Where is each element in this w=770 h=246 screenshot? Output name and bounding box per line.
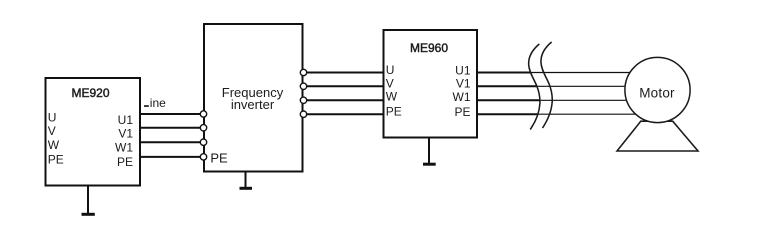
wire V1 (ME920 to inverter) <box>140 127 204 129</box>
motor mount base <box>617 121 698 151</box>
ME960 pin PE (right) <box>454 105 470 119</box>
terminal circle U (inverter output) <box>300 69 306 75</box>
svg-text:U: U <box>386 63 395 77</box>
cable break squiggle (left) <box>529 44 540 130</box>
wire PE (inverter to ME960) <box>304 113 384 115</box>
ME920 pin W1 <box>115 141 133 155</box>
svg-text:U1: U1 <box>455 63 471 77</box>
ME960 pin U1 <box>455 63 471 77</box>
ME920 pin U <box>48 111 57 125</box>
wire W1 (ME920 to inverter) <box>140 141 204 143</box>
svg-text:W1: W1 <box>115 141 133 155</box>
ME920 pin V <box>48 124 56 138</box>
svg-text:V1: V1 <box>456 77 471 91</box>
wire V1 (cable break to motor) <box>537 85 641 87</box>
svg-text:V: V <box>48 124 56 138</box>
wire W (inverter to ME960) <box>304 99 384 101</box>
ME960 pin V <box>386 76 394 90</box>
ground (ME960) <box>423 138 436 164</box>
svg-text:U: U <box>48 111 57 125</box>
ME920 pin W <box>48 138 60 152</box>
terminal circle V (inverter output) <box>300 83 306 89</box>
terminal circle V1 (inverter input) <box>200 125 206 131</box>
wire PE (ME920 to inverter) <box>140 156 204 158</box>
svg-text:ME920: ME920 <box>71 86 109 100</box>
svg-text:V: V <box>386 76 394 90</box>
inverter pin PE label <box>210 150 228 165</box>
svg-text:inverter: inverter <box>231 97 275 112</box>
terminal circle PE (inverter input) <box>200 154 206 160</box>
svg-text:W1: W1 <box>453 90 471 104</box>
svg-text:ME960: ME960 <box>410 41 448 55</box>
ME920 pin V1 <box>118 127 133 141</box>
frequency inverter U2 <box>204 24 303 172</box>
svg-text:PE: PE <box>386 105 402 119</box>
wire V1 (ME960 to cable break) <box>477 85 537 87</box>
ground (ME920) <box>82 186 95 214</box>
ME920 pin PE (right) <box>117 155 133 169</box>
wire PE (ME960 to cable break) <box>477 113 537 115</box>
ME960 pin W1 <box>453 90 471 104</box>
wire V (inverter to ME960) <box>304 85 384 87</box>
svg-text:PE: PE <box>210 150 228 165</box>
svg-text:V1: V1 <box>118 127 133 141</box>
motor M1 <box>625 57 690 122</box>
wire U1 (ME920 to inverter) <box>140 113 204 115</box>
svg-text:W: W <box>48 138 60 152</box>
input filter ME920 <box>46 78 141 186</box>
ground (inverter) <box>240 172 253 188</box>
cable break squiggle (right) <box>541 42 552 128</box>
wire U1 (ME960 to cable break) <box>477 72 530 74</box>
wire W1 (ME960 to cable break) <box>477 99 540 101</box>
terminal circle U1 (inverter input) <box>200 111 206 117</box>
ME960 pin V1 <box>456 77 471 91</box>
svg-text:Motor: Motor <box>639 86 675 101</box>
ME960 pin PE <box>386 105 402 119</box>
terminal circle W1 (inverter input) <box>200 139 206 145</box>
svg-text:PE: PE <box>454 105 470 119</box>
wire W1 (cable break to motor) <box>540 99 641 101</box>
wire PE (cable break to motor) <box>537 113 640 115</box>
svg-text:U1: U1 <box>118 113 134 127</box>
svg-text:ine: ine <box>150 96 166 110</box>
wire U1 (cable break to motor) <box>530 72 640 74</box>
svg-text:PE: PE <box>117 155 133 169</box>
wire U (inverter to ME960) <box>304 72 384 74</box>
terminal circle W (inverter output) <box>300 97 306 103</box>
ME920 pin U1 <box>118 113 134 127</box>
terminal circle PE (inverter output) <box>300 111 306 117</box>
ME960 pin W <box>386 90 398 104</box>
node label Line <box>144 96 166 110</box>
ME960 pin U <box>386 63 395 77</box>
svg-text:PE: PE <box>48 152 64 166</box>
ME920 pin PE <box>48 152 64 166</box>
output filter ME960 <box>384 30 478 138</box>
svg-text:W: W <box>386 90 398 104</box>
